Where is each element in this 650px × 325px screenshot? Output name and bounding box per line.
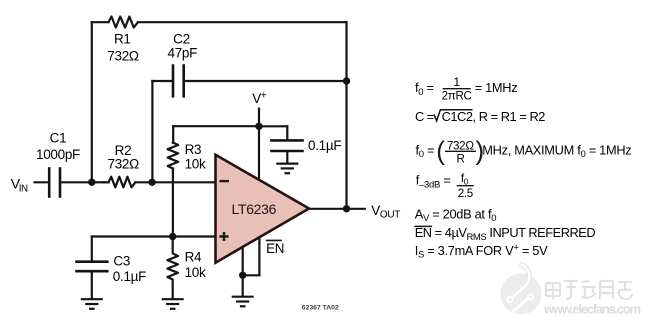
svg-text:47pF: 47pF bbox=[168, 45, 198, 60]
resistor R4 bbox=[167, 237, 178, 299]
wire V+ stub bbox=[258, 109, 260, 127]
svg-text:10k: 10k bbox=[185, 265, 206, 280]
capacitor 0.1uF bypass bbox=[272, 139, 303, 142]
svg-text:=: = bbox=[427, 109, 434, 124]
svg-text:(: ( bbox=[436, 136, 445, 166]
wire R3 top to V+ node bbox=[173, 125, 259, 127]
wire opamp output bbox=[309, 208, 365, 210]
wire R3 bottom crossing to plus node bbox=[172, 169, 174, 237]
svg-text:): ) bbox=[476, 136, 485, 166]
svg-text:2πRC: 2πRC bbox=[442, 90, 472, 103]
wire VIN stub bbox=[35, 181, 49, 183]
svg-text:C1: C1 bbox=[50, 131, 67, 146]
opamp minus symbol bbox=[220, 180, 230, 182]
wire C3 stub down bbox=[91, 237, 93, 261]
svg-text:62367 TA02: 62367 TA02 bbox=[302, 305, 339, 312]
svg-text:1000pF: 1000pF bbox=[36, 147, 80, 162]
svg-text:R: R bbox=[456, 153, 464, 166]
wire C2 to feedback vertical bbox=[185, 80, 347, 82]
ground below C3 bbox=[81, 299, 103, 309]
wire riser node A up bbox=[91, 22, 93, 182]
svg-text:732Ω: 732Ω bbox=[107, 48, 139, 63]
watermark chinese characters bbox=[546, 281, 632, 299]
wire node B to opamp minus bbox=[152, 181, 215, 183]
resistor R1 bbox=[109, 17, 139, 28]
svg-text:IN: IN bbox=[19, 183, 28, 194]
formula line 2: C = sqrt(C1C2), R = R1 = R2 bbox=[415, 109, 545, 124]
svg-text:EN = 4µVRMS INPUT REFERRED: EN = 4µVRMS INPUT REFERRED bbox=[415, 225, 596, 243]
watermark logo disc bbox=[501, 264, 542, 315]
wire opamp Vminus pin bbox=[242, 247, 244, 275]
wire C1 to node A bbox=[61, 181, 92, 183]
wire R3 top vertical bbox=[172, 126, 174, 143]
formula line 3: f0 = (732/R)MHz, MAXIMUM f0 = 1MHz bbox=[416, 139, 632, 165]
svg-text:732Ω: 732Ω bbox=[447, 139, 474, 152]
capacitor C3 bbox=[77, 260, 108, 263]
wire bypass cap to ground bbox=[286, 152, 288, 163]
wire C3 to ground bbox=[91, 272, 93, 298]
node Vminus EN bbox=[239, 272, 246, 279]
svg-text:C1C2, R = R1 = R2: C1C2, R = R1 = R2 bbox=[442, 109, 546, 124]
svg-text:C2: C2 bbox=[173, 32, 190, 47]
wire top right segment bbox=[138, 21, 347, 23]
wire EN pin bbox=[243, 238, 260, 276]
node V+ bbox=[255, 123, 262, 130]
svg-text:R4: R4 bbox=[185, 250, 202, 265]
op-amp U1 triangle bbox=[216, 155, 310, 263]
wire plus input bbox=[92, 235, 216, 237]
svg-text:f0 =: f0 = bbox=[416, 143, 435, 161]
fraction bar line 1 bbox=[443, 88, 471, 90]
opamp plus symbol bbox=[219, 232, 228, 241]
ground below opamp bbox=[232, 297, 254, 307]
wire R2 to node B bbox=[104, 181, 152, 183]
wire riser node B up bbox=[151, 81, 153, 182]
svg-text:0.1µF: 0.1µF bbox=[113, 269, 146, 284]
svg-text:EN: EN bbox=[266, 241, 284, 256]
node A bbox=[88, 179, 95, 186]
resistor R3 bbox=[168, 143, 179, 169]
node plus bias bbox=[169, 233, 176, 240]
svg-text:0.1µF: 0.1µF bbox=[308, 138, 341, 153]
formula line 1: f0 = 1/2piRC = 1MHz bbox=[415, 75, 517, 102]
capacitor C2 bbox=[172, 66, 175, 97]
svg-text:R3: R3 bbox=[185, 142, 202, 157]
wire Vminus to ground bbox=[242, 275, 244, 295]
wire feedback right vertical bbox=[345, 22, 347, 209]
svg-text:IS = 3.7mA FOR V+ = 5V: IS = 3.7mA FOR V+ = 5V bbox=[415, 243, 548, 261]
svg-text:f0 =: f0 = bbox=[415, 80, 434, 98]
ground below bypass cap bbox=[276, 164, 298, 174]
svg-text:10k: 10k bbox=[185, 156, 206, 171]
capacitor C1 bbox=[48, 169, 51, 197]
wire top left segment bbox=[92, 21, 109, 23]
svg-text:732Ω: 732Ω bbox=[107, 156, 139, 171]
node C2 feedback bbox=[343, 77, 350, 84]
wire node A to R2 bbox=[92, 181, 105, 183]
wire V+ node to bypass cap bbox=[259, 125, 287, 127]
svg-text:C3: C3 bbox=[113, 254, 130, 269]
svg-text:www.elecfans.com: www.elecfans.com bbox=[543, 302, 641, 317]
ground below R4 bbox=[162, 299, 184, 309]
svg-text:LT6236: LT6236 bbox=[232, 201, 277, 217]
formula line 4: f-3dB = f0/2.5 bbox=[416, 172, 473, 200]
node B bbox=[148, 179, 155, 186]
node output bbox=[343, 205, 350, 212]
wire bypass cap stub down bbox=[286, 126, 288, 139]
svg-text:R1: R1 bbox=[114, 32, 131, 47]
wire node B riser to C2 bbox=[152, 80, 172, 82]
svg-text:= 1MHz: = 1MHz bbox=[475, 80, 518, 95]
svg-text:2.5: 2.5 bbox=[458, 187, 473, 200]
svg-text:MHz, MAXIMUM f0 = 1MHz: MHz, MAXIMUM f0 = 1MHz bbox=[482, 143, 631, 161]
svg-text:C: C bbox=[415, 109, 424, 124]
wire V+ node down into opamp bbox=[258, 126, 260, 179]
resistor R2 bbox=[109, 177, 136, 188]
svg-text:1: 1 bbox=[453, 75, 460, 89]
radical sign line 2 bbox=[434, 110, 473, 121]
